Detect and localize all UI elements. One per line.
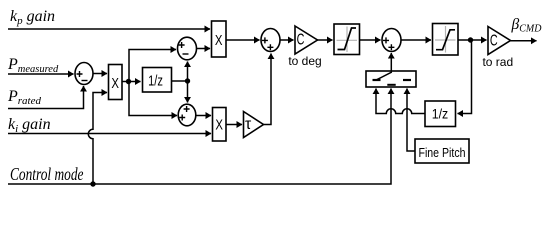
unit delay Z2 (1/z) — [425, 101, 456, 127]
wire tau to sum SA bottom — [264, 54, 272, 125]
multiplier X1 — [109, 65, 123, 100]
svg-text:Control mode: Control mode — [10, 164, 84, 184]
svg-text:kp gain: kp gain — [10, 8, 55, 27]
node control-mode branch junction — [90, 181, 95, 186]
wire feedback junction to unit delay Z2 — [458, 40, 472, 114]
wire Control mode to switch middle input — [8, 89, 391, 185]
wire P rated to sum S1 bottom — [8, 86, 84, 109]
wire SAT2 to gain C2 with junction — [458, 39, 487, 41]
wire X3 to gain tau — [226, 124, 242, 126]
svg-text:to rad: to rad — [482, 55, 513, 69]
wire kp gain to multiplier X2 — [8, 28, 210, 30]
svg-text:τ: τ — [245, 116, 252, 133]
svg-text:X: X — [111, 75, 119, 92]
wire error branch to sum S3 (down) — [129, 82, 177, 116]
gain C2 (to rad) triangle — [488, 27, 511, 55]
wire X2 to sum SA — [226, 39, 260, 41]
svg-text:Fine Pitch: Fine Pitch — [419, 145, 466, 160]
svg-text:X: X — [215, 32, 223, 49]
gain C1 (to deg) triangle — [295, 26, 318, 54]
svg-text:1/z: 1/z — [432, 106, 449, 122]
wire ki gain to multiplier X3 — [8, 133, 211, 135]
svg-text:to deg: to deg — [288, 54, 321, 68]
node Z1 output junction — [185, 78, 190, 83]
wire error branch to sum S2 (up) — [129, 50, 177, 82]
multiplier X2 — [212, 21, 227, 57]
wire sum S3 to multiplier X3 — [196, 115, 211, 117]
wire sum SB to saturation SAT2 — [401, 39, 431, 41]
constant Fine Pitch — [415, 139, 469, 163]
sum S3 (u + u[n-1]) — [178, 104, 196, 126]
wire SAT1 to sum SB — [360, 39, 381, 41]
wire Z1 output to junction — [172, 80, 188, 82]
wire Fine Pitch to switch right input — [407, 89, 415, 152]
wire switch output to sum SB bottom — [390, 53, 392, 71]
gain tau triangle — [244, 112, 264, 138]
svg-text:C: C — [297, 32, 305, 49]
svg-text:βCMD: βCMD — [511, 16, 543, 34]
svg-text:Prated: Prated — [7, 88, 42, 107]
wire P measured to sum S1 — [8, 73, 74, 75]
unit delay Z1 (1/z) — [143, 68, 172, 93]
wire C2 to beta CMD output — [511, 40, 537, 42]
switch SW — [366, 71, 416, 87]
wire Z2 to switch left input (hops two lines) — [376, 89, 425, 114]
wire sum SA to gain C1 — [280, 39, 294, 41]
wire sum S2 to multiplier X2 — [197, 48, 211, 50]
multiplier X3 — [213, 108, 227, 142]
saturation SAT2 — [433, 24, 459, 56]
wire control mode branch to multiplier X1 (hops ki line) — [88, 93, 107, 185]
sum S1 (P_measured - P_rated) — [75, 63, 93, 85]
node X1 output junction — [126, 79, 131, 84]
sum S2 (difference u - u[n-1]) — [178, 37, 197, 60]
wire junction up to sum S2 minus — [187, 62, 189, 82]
sum SA (delta beta) — [261, 29, 280, 52]
svg-text:Pmeasured: Pmeasured — [7, 56, 59, 75]
wire sum S1 to multiplier X1 — [93, 73, 107, 75]
wire C1 to saturation SAT1 — [318, 39, 333, 41]
wire X1 to unit delay Z1 — [122, 81, 141, 83]
svg-text:1/z: 1/z — [148, 73, 163, 89]
node output feedback junction — [468, 37, 473, 42]
saturation SAT1 — [334, 24, 360, 55]
wire junction down to sum S3 plus — [187, 81, 189, 103]
svg-text:C: C — [490, 32, 498, 49]
svg-text:X: X — [215, 117, 223, 134]
sum SB (beta increment + previous beta) — [382, 29, 401, 52]
svg-text:ki gain: ki gain — [8, 116, 51, 135]
